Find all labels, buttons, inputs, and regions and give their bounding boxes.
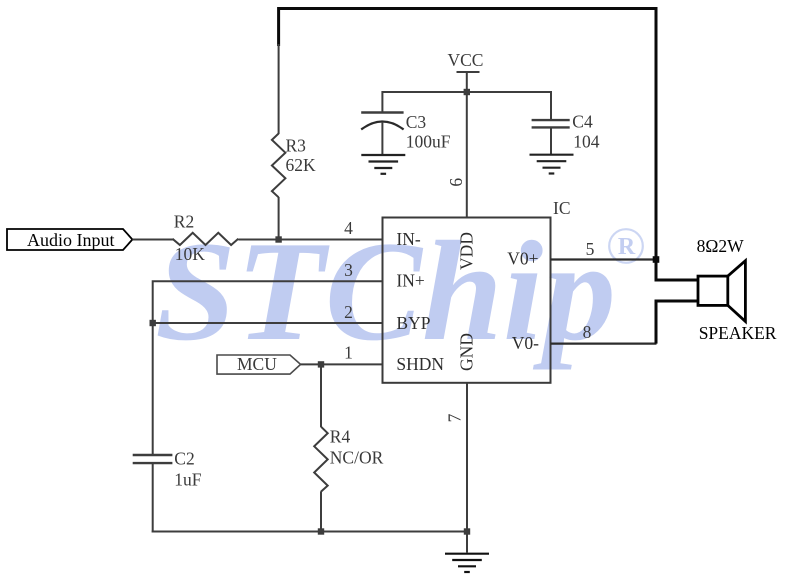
junction dot R4 bottom: [318, 528, 324, 534]
wire R4 bottom: [320, 491, 322, 532]
svg-text:IN+: IN+: [396, 271, 424, 291]
svg-text:1uF: 1uF: [174, 469, 202, 489]
wire pin7 GND: [466, 383, 468, 553]
svg-text:V0-: V0-: [512, 333, 539, 353]
wire rail to C4: [550, 91, 552, 121]
junction dot BYP: [150, 320, 156, 326]
node A junction dot R2/R3: [275, 236, 281, 242]
svg-text:R3: R3: [286, 136, 307, 156]
svg-text:5: 5: [586, 239, 595, 259]
resistor R2: [173, 233, 239, 245]
wire IC pin2 to left rail: [153, 322, 383, 324]
svg-text:8: 8: [583, 322, 592, 342]
ground C4: [530, 155, 574, 174]
VCC rail wire: [382, 91, 551, 93]
svg-text:Audio Input: Audio Input: [27, 230, 115, 250]
svg-text:SPEAKER: SPEAKER: [699, 323, 777, 343]
wire corner to speaker minus: [656, 301, 698, 344]
svg-text:8Ω2W: 8Ω2W: [697, 236, 745, 256]
svg-text:4: 4: [344, 218, 353, 238]
wire C2 bottom: [152, 463, 154, 532]
wire rail to C3: [381, 91, 383, 113]
junction dot SHDN/R4: [318, 361, 324, 367]
port MCU: [217, 355, 301, 374]
wire IC pin3 to left rail: [153, 281, 383, 455]
svg-text:104: 104: [573, 131, 600, 151]
svg-text:C4: C4: [572, 111, 593, 131]
svg-text:10K: 10K: [175, 244, 206, 264]
capacitor C3 electrolytic: [361, 111, 403, 113]
svg-text:MCU: MCU: [237, 354, 277, 374]
svg-text:R: R: [618, 234, 636, 260]
svg-text:7: 7: [445, 413, 465, 422]
capacitor C4: [532, 119, 570, 121]
svg-text:C2: C2: [174, 448, 194, 468]
wire R4 top: [320, 364, 322, 427]
wire R3 top segment: [278, 44, 280, 134]
wire top net thick: R3 top to right corner down to V0+ junction: [279, 9, 656, 260]
wire junction to speaker plus: [656, 260, 698, 281]
resistor R3: [272, 134, 286, 198]
svg-text:62K: 62K: [286, 155, 317, 175]
IC U1 box: [383, 218, 551, 383]
ground main: [445, 554, 489, 572]
svg-text:IN-: IN-: [396, 229, 420, 249]
wire pin6 VDD: [466, 92, 468, 218]
svg-text:1: 1: [344, 343, 353, 363]
wire Audio Input to R2: [132, 239, 173, 241]
svg-text:2: 2: [344, 302, 353, 322]
resistor R4: [314, 427, 328, 492]
svg-text:STChip: STChip: [155, 212, 616, 370]
svg-text:GND: GND: [456, 333, 476, 371]
svg-text:R4: R4: [330, 426, 351, 446]
svg-text:VCC: VCC: [448, 50, 484, 70]
ground C3: [361, 155, 405, 174]
svg-text:3: 3: [344, 260, 353, 280]
wire pin5 V0+: [551, 258, 657, 260]
svg-text:R2: R2: [174, 211, 194, 231]
junction dot V0+: [653, 256, 660, 263]
junction dot pin7 node: [464, 528, 470, 534]
wire C3 to ground: [381, 122, 383, 156]
svg-text:V0+: V0+: [507, 249, 538, 269]
wire MCU to IC pin1: [301, 363, 383, 365]
wire C4 to ground: [550, 127, 552, 155]
port Audio Input: [7, 229, 132, 250]
svg-text:6: 6: [446, 178, 466, 187]
bottom rail wire: [152, 531, 467, 533]
svg-text:NC/OR: NC/OR: [330, 448, 384, 468]
svg-text:C3: C3: [406, 112, 427, 132]
junction dot VCC: [464, 89, 470, 95]
watermark STChip: [155, 212, 643, 370]
wire R2 to node A to IC pin4: [238, 239, 382, 241]
svg-text:BYP: BYP: [396, 313, 430, 333]
svg-text:VDD: VDD: [456, 232, 476, 270]
svg-text:IC: IC: [553, 198, 571, 218]
capacitor C2: [133, 454, 173, 456]
wire R3 bottom to node A: [278, 197, 280, 240]
svg-text:SHDN: SHDN: [396, 354, 444, 374]
wire pin8 V0-: [551, 343, 657, 345]
speaker LS1: [698, 261, 745, 322]
svg-text:100uF: 100uF: [406, 131, 451, 151]
